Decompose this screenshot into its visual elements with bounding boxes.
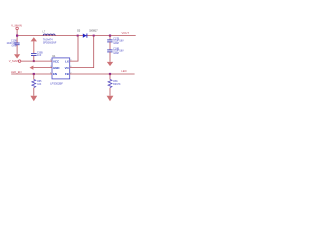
svg-text:GND: GND: [53, 66, 59, 70]
inductor L7: [43, 31, 57, 45]
ground arrow left at GND pin: [30, 66, 34, 70]
ground arrow below R65: [30, 96, 37, 101]
net label V_MAIN (VCC pin): [9, 59, 19, 63]
svg-text:U1: U1: [52, 54, 56, 58]
svg-text:LX: LX: [65, 59, 69, 63]
junction diode anode: [77, 35, 79, 37]
wire LED junction down: [109, 74, 111, 80]
junction diode cathode side: [93, 35, 95, 37]
svg-text:SPD0603NF: SPD0603NF: [43, 41, 57, 44]
wire bus down to C17B: [109, 36, 111, 40]
svg-text:GRM: GRM: [11, 46, 16, 48]
junction at V_MAIN/bus: [16, 35, 18, 37]
resistor R66: [108, 80, 121, 88]
wire top bus: [17, 35, 136, 37]
svg-text:VOUT: VOUT: [122, 31, 130, 35]
net label LED: [121, 69, 126, 73]
net label V_MAIN (top left): [11, 24, 22, 28]
wire below R66: [109, 88, 111, 96]
svg-text:LP3302BF: LP3302BF: [50, 82, 63, 86]
svg-text:FB: FB: [65, 72, 69, 76]
junction EN / R65: [33, 73, 35, 75]
pin circle V_MAIN top: [16, 27, 19, 30]
wire V_MAIN down to C10B: [16, 30, 18, 43]
svg-text:R65: R65: [37, 81, 42, 83]
svg-text:V_MAIN: V_MAIN: [9, 59, 19, 63]
wire C30B down to VCC wire: [33, 56, 35, 62]
wire VCC pin: [21, 60, 52, 62]
wire LX pin to bus: [70, 36, 78, 62]
power arrow up at C30B: [31, 37, 37, 53]
svg-text:LED: LED: [121, 69, 126, 73]
capacitor C18B: [107, 48, 124, 55]
ground arrow below caps: [107, 62, 113, 66]
wire GND pin: [33, 67, 52, 69]
svg-text:GRM: GRM: [113, 53, 118, 55]
net label LED_EN: [11, 70, 22, 74]
junction LED / R66: [109, 73, 111, 75]
net label VOUT: [122, 31, 130, 35]
capacitor C30B: [31, 52, 43, 56]
wire below C10B: [16, 45, 18, 55]
pin circle V_MAIN VCC: [18, 60, 21, 63]
wire FB pin to LED net: [70, 73, 135, 75]
wire below C18B: [109, 52, 111, 62]
junction output caps: [109, 35, 111, 37]
svg-text:1UF: 1UF: [37, 55, 42, 57]
wire below R65: [33, 88, 35, 96]
capacitor C10B: [6, 41, 19, 48]
svg-text:VCC: VCC: [53, 59, 60, 63]
ground arrow below C10B: [14, 54, 20, 58]
svg-text:EN: EN: [53, 72, 57, 76]
diode D3: [77, 30, 98, 38]
junction C30B/VCC wire: [33, 60, 35, 62]
wire EN pin: [11, 73, 52, 75]
wire between C17B and C18B: [109, 42, 111, 50]
svg-text:GRM: GRM: [113, 43, 118, 45]
ground arrow below R66: [107, 96, 114, 101]
svg-text:10K: 10K: [37, 84, 42, 86]
IC U1: [50, 54, 72, 86]
wire EN junction down: [33, 74, 35, 80]
svg-text:BR17K: BR17K: [113, 84, 121, 86]
svg-text:1N5817: 1N5817: [89, 30, 98, 33]
svg-text:VO: VO: [65, 66, 70, 70]
svg-text:R66: R66: [113, 81, 118, 83]
resistor R65: [32, 80, 42, 88]
wire VO pin to bus: [70, 36, 94, 68]
capacitor C17B: [107, 38, 124, 45]
